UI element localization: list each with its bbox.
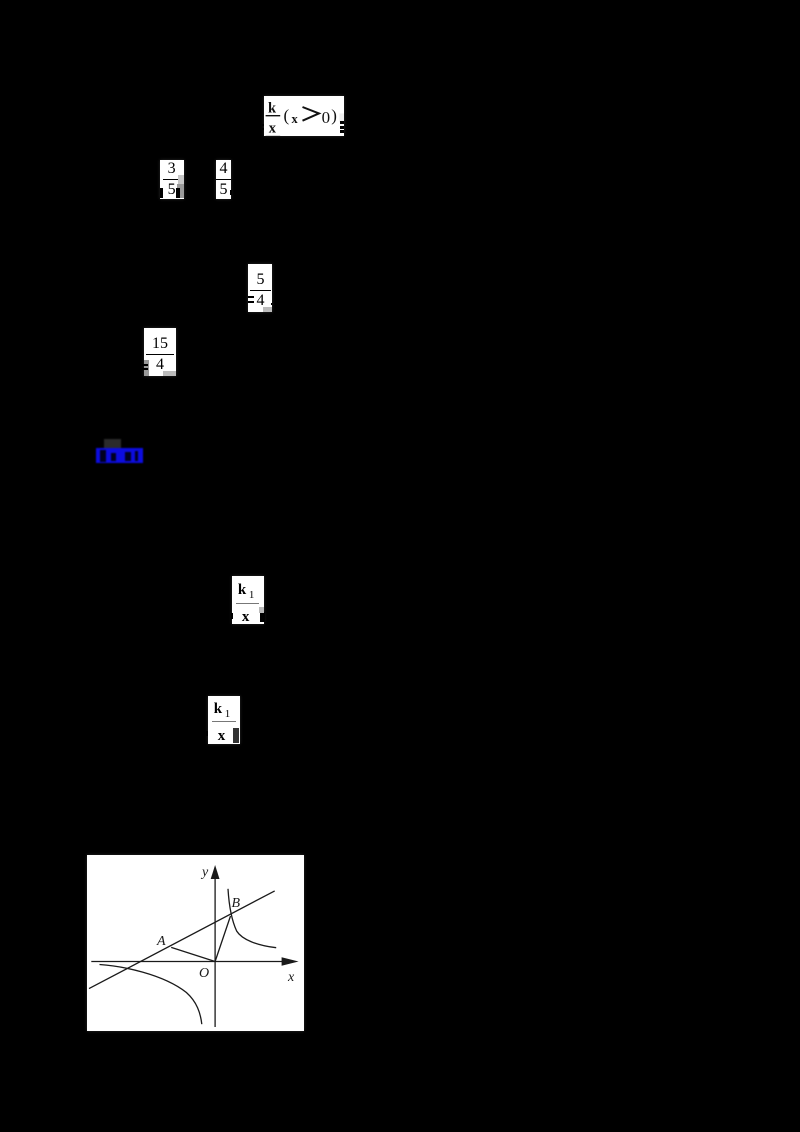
svg-text:y: y	[200, 865, 209, 880]
x axis	[91, 961, 290, 963]
svg-text:O: O	[199, 966, 209, 981]
black bracket artifacts around 5	[160, 188, 164, 199]
fraction image 4/5	[216, 160, 231, 200]
main line through A and B	[89, 891, 275, 989]
svg-text:x: x	[292, 112, 299, 126]
hyperbola right branch	[228, 889, 276, 948]
svg-text:x: x	[287, 970, 295, 985]
fraction image k1/x (first)	[232, 576, 264, 624]
big greater-than	[303, 107, 319, 121]
fraction bar	[266, 115, 281, 116]
blue hyperlink blob	[80, 430, 170, 475]
dark glyph marks inside blue blob	[100, 450, 106, 462]
x axis arrowhead	[282, 957, 299, 966]
fraction image 5/4	[248, 264, 272, 312]
colon artifact left of k/x box	[262, 124, 264, 126]
graph figure box	[87, 855, 304, 1031]
fraction image 3/5	[160, 160, 184, 200]
svg-text:k: k	[268, 100, 277, 116]
black mark bottom-right of k/x box	[340, 121, 345, 124]
fraction image 15/4	[144, 328, 176, 376]
light grey right edge	[340, 113, 345, 122]
svg-text:(: (	[284, 106, 290, 125]
grey strip under x	[266, 135, 281, 137]
formula image: y = k/x (x>0)	[264, 96, 344, 136]
grey artifact right of 3/5	[178, 175, 184, 184]
svg-text:A: A	[156, 934, 166, 949]
svg-text:): )	[332, 106, 338, 125]
y axis	[214, 875, 216, 1027]
equals artifact at left of 5/4	[248, 296, 254, 298]
hyperbola left branch	[100, 965, 202, 1025]
svg-text:0: 0	[322, 108, 330, 127]
segment O to B	[215, 916, 230, 962]
equals artifact at left of 15/4	[142, 364, 148, 366]
svg-text:B: B	[232, 896, 241, 911]
y axis arrowhead	[211, 865, 220, 879]
grey corner artifacts of 15/4	[144, 360, 149, 376]
segment A to O	[171, 947, 215, 961]
fraction image k1/x (second)	[208, 696, 240, 744]
svg-text:x: x	[269, 120, 277, 135]
